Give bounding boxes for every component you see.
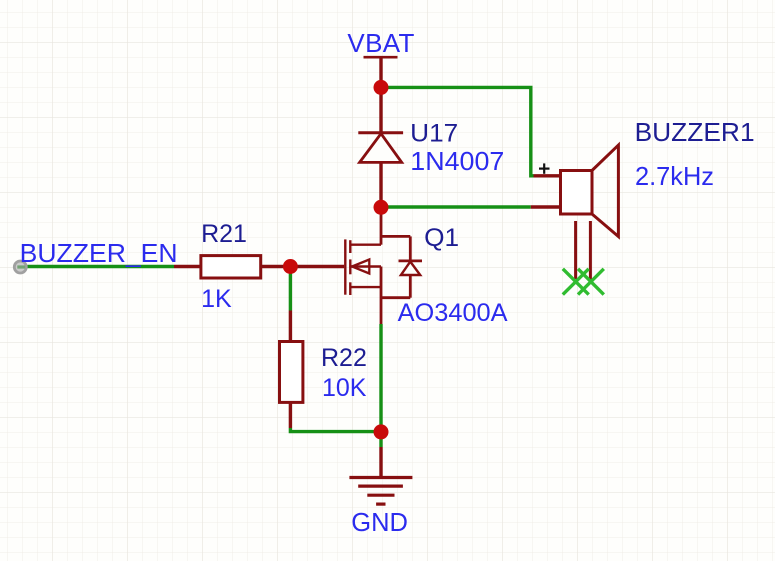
svg-text:BUZZER1: BUZZER1 <box>635 117 755 147</box>
svg-text:2.7kHz: 2.7kHz <box>635 161 714 191</box>
svg-text:R22: R22 <box>321 344 367 372</box>
svg-text:VBAT: VBAT <box>347 28 414 58</box>
svg-text:U17: U17 <box>410 119 458 147</box>
svg-text:BUZZER_EN: BUZZER_EN <box>20 238 178 268</box>
svg-text:1N4007: 1N4007 <box>410 146 504 176</box>
svg-text:AO3400A: AO3400A <box>398 299 508 327</box>
svg-text:R21: R21 <box>201 220 247 248</box>
svg-text:1K: 1K <box>201 285 232 313</box>
svg-text:Q1: Q1 <box>424 224 459 252</box>
svg-text:10K: 10K <box>322 374 367 402</box>
svg-text:GND: GND <box>351 509 408 537</box>
